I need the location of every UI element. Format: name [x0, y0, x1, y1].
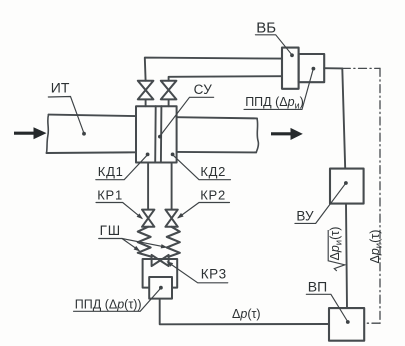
svg-text:ППД (Δpи): ППД (Δpи): [245, 95, 304, 111]
right top valve (hourglass): [161, 81, 177, 100]
flow arrow in: [14, 127, 47, 139]
svg-text:ВП: ВП: [308, 278, 327, 294]
svg-text:ВУ: ВУ: [296, 209, 314, 224]
ППД(Δp_и) box: [299, 54, 325, 82]
ВУ box: [330, 169, 364, 204]
right top tap stem upper + impulse line B to ВБ: [169, 76, 282, 81]
orifice gap left edge: [154, 106, 157, 162]
wire Δp(τ) bottom run: [160, 299, 329, 325]
dash-dot line right vertical: [379, 68, 381, 323]
leader lines and dots: [48, 35, 349, 324]
line ППД to corner: [324, 67, 342, 69]
svg-text:КР2: КР2: [200, 188, 226, 203]
right top tap stem lower: [168, 99, 170, 106]
label ВП leader: [306, 294, 347, 321]
left top tap stem upper + impulse line A to ВБ: [145, 58, 282, 81]
label ВУ leader: [295, 184, 345, 224]
label ППД(Δp(τ)) leader: [74, 289, 161, 312]
ППД(Δp(τ)) box: [149, 277, 172, 299]
label КД1 leader: [96, 155, 147, 179]
ВБ box: [282, 48, 299, 89]
radical sign of √Δp_и(τ): [328, 230, 345, 271]
left top valve (hourglass): [138, 81, 154, 100]
zigzag coil right ГШ: [167, 227, 180, 257]
svg-text:КР3: КР3: [201, 266, 227, 281]
label КР1 leader with arrow: [96, 203, 142, 219]
ВП box: [329, 308, 364, 341]
valve КР2 (hourglass): [165, 210, 177, 227]
label ГШ leader 1 with arrow: [99, 239, 139, 251]
label СУ leader: [160, 97, 213, 135]
valve КР3 (horizontal bow-tie): [152, 255, 169, 266]
zigzag coil left ГШ: [138, 227, 152, 257]
label КР2 leader with arrow: [178, 203, 229, 218]
svg-text:ГШ: ГШ: [100, 223, 121, 238]
svg-text:ИТ: ИТ: [51, 79, 70, 95]
left top tap stem lower: [145, 99, 147, 106]
valve КР1 (hourglass): [142, 210, 154, 227]
svg-text:КД1: КД1: [98, 164, 124, 179]
label КР3 leader with arrow: [168, 262, 228, 283]
pipe ИТ left bottom edge: [47, 151, 137, 154]
wire corner to ВУ: [342, 68, 345, 168]
label ИТ leader: [48, 97, 83, 133]
svg-text:ВБ: ВБ: [256, 19, 276, 36]
dash-dot line top horizontal: [342, 67, 380, 69]
flow arrow out: [271, 128, 303, 140]
dash-dot into ВП: [364, 322, 380, 324]
svg-text:Δpи(τ): Δpи(τ): [328, 227, 345, 261]
label √Δp_и(τ) rotated: [328, 227, 345, 271]
pipe right top edge: [177, 117, 257, 118]
pipe right bottom edge: [177, 151, 257, 154]
wire ВУ to ВП: [346, 204, 347, 309]
pipe left break curve: [47, 115, 49, 153]
pipe ИТ left top edge: [49, 115, 137, 117]
orifice assembly СУ outer body: [136, 106, 177, 162]
label ВБ leader: [255, 35, 291, 54]
svg-text:КД2: КД2: [200, 164, 226, 179]
label Δp_и(τ) rotated: [368, 230, 385, 264]
label ГШ leader 2 with arrow: [122, 239, 166, 248]
orifice gap right edge: [160, 106, 163, 162]
label КД2 leader: [173, 155, 230, 179]
pipe right break curve: [256, 118, 258, 152]
svg-text:Δpи(τ): Δpи(τ): [368, 230, 385, 264]
manifold outer box ГШ: [143, 259, 178, 288]
svg-text:ППД (Δp(τ)): ППД (Δp(τ)): [75, 297, 142, 311]
right bottom tap stem: [171, 163, 173, 210]
svg-text:СУ: СУ: [194, 82, 213, 97]
label ППД(Δp_и) leader: [244, 70, 313, 110]
left bottom tap stem: [147, 163, 149, 210]
svg-text:КР1: КР1: [97, 188, 123, 203]
svg-text:Δp(τ): Δp(τ): [232, 307, 261, 321]
